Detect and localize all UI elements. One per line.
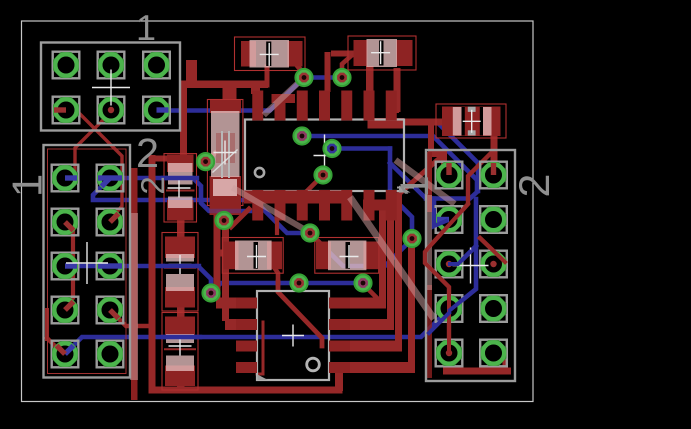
svg-text:2: 2 (136, 130, 159, 176)
svg-text:1: 1 (136, 7, 156, 48)
svg-text:2: 2 (511, 174, 559, 198)
svg-text:1: 1 (393, 175, 437, 197)
svg-text:1: 1 (4, 174, 51, 197)
svg-text:2: 2 (134, 176, 171, 194)
